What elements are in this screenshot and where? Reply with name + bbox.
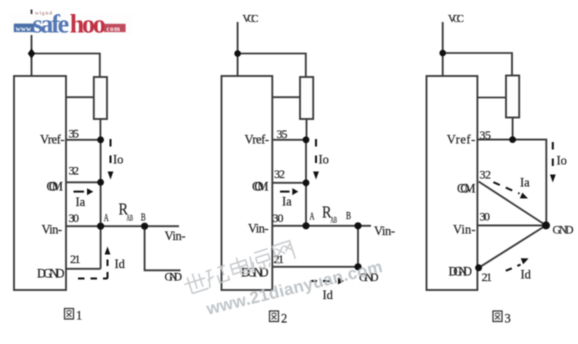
svg-text:Vin-: Vin- — [42, 223, 63, 237]
svg-text:DGND: DGND — [449, 265, 473, 279]
svg-text:GND: GND — [553, 225, 574, 237]
svg-text:35: 35 — [69, 127, 80, 141]
svg-text:35: 35 — [480, 128, 492, 142]
svg-text:COM: COM — [457, 182, 476, 196]
svg-text:30: 30 — [273, 211, 284, 225]
svg-text:Id: Id — [521, 268, 532, 282]
svg-text:Ia: Ia — [520, 176, 530, 190]
svg-text:Vin-: Vin- — [453, 223, 476, 237]
svg-text:32: 32 — [274, 167, 285, 181]
svg-text:COM: COM — [252, 180, 269, 194]
svg-text:wignd: wignd — [35, 12, 53, 17]
svg-text:A: A — [310, 212, 315, 223]
svg-text:Ia: Ia — [282, 195, 292, 209]
svg-text:AB: AB — [127, 213, 134, 223]
svg-text:Io: Io — [113, 153, 123, 167]
svg-text:Vref-: Vref- — [245, 133, 270, 147]
svg-text:Io: Io — [319, 153, 329, 167]
svg-text:21: 21 — [482, 270, 493, 284]
svg-text:com: com — [107, 25, 121, 33]
svg-text:35: 35 — [277, 127, 288, 141]
svg-text:30: 30 — [69, 211, 80, 225]
svg-text:B: B — [141, 213, 146, 224]
svg-text:Io: Io — [557, 154, 567, 168]
svg-text:AB: AB — [331, 215, 338, 225]
svg-text:B: B — [346, 211, 351, 222]
svg-text:A: A — [104, 213, 109, 224]
svg-text:21: 21 — [70, 252, 81, 266]
svg-text:Vin-: Vin- — [374, 224, 395, 238]
svg-text:3: 3 — [505, 312, 511, 326]
svg-text:Ia: Ia — [76, 195, 86, 209]
svg-text:DGND: DGND — [37, 267, 65, 281]
svg-text:Vin-: Vin- — [165, 229, 186, 243]
svg-text:Vref-: Vref- — [447, 133, 476, 147]
svg-text:COM: COM — [47, 180, 64, 194]
svg-text:VCC: VCC — [448, 13, 464, 25]
svg-text:hoo: hoo — [70, 10, 106, 39]
svg-text:VCC: VCC — [243, 13, 259, 25]
svg-text:32: 32 — [480, 168, 492, 182]
svg-text:DGND: DGND — [241, 266, 269, 280]
svg-text:Vin-: Vin- — [248, 222, 269, 236]
svg-text:Id: Id — [115, 257, 126, 271]
svg-text:30: 30 — [480, 210, 491, 224]
svg-text:2: 2 — [281, 312, 287, 326]
svg-text:www: www — [16, 25, 33, 33]
svg-text:GND: GND — [165, 272, 183, 284]
svg-text:Vref-: Vref- — [40, 133, 65, 147]
svg-text:32: 32 — [69, 164, 80, 178]
svg-text:1: 1 — [76, 309, 82, 323]
